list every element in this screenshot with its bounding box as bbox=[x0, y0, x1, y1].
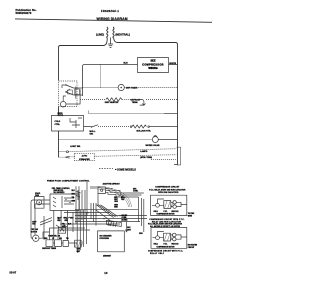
svg-text:CIRCUIT: CIRCUIT bbox=[188, 247, 194, 249]
svg-text:(BTM. TRIM): (BTM. TRIM) bbox=[140, 157, 152, 159]
defrost thermostat small box bbox=[58, 227, 65, 233]
svg-text:RELAY ONLY: RELAY ONLY bbox=[150, 252, 165, 255]
publication number label bbox=[16, 8, 37, 15]
svg-text:YEL: YEL bbox=[62, 223, 65, 225]
compressor circuit box 2 bbox=[151, 228, 187, 249]
wire icemaker rung right bbox=[94, 155, 176, 157]
wire aux connections bbox=[31, 215, 50, 239]
wire compressor rung left bbox=[83, 65, 138, 97]
node junction dots bbox=[75, 212, 120, 222]
icemaker dashed box bbox=[75, 153, 95, 161]
label connector bbox=[122, 215, 129, 221]
svg-text:(LINE): (LINE) bbox=[96, 32, 104, 36]
label DEFROST TERM. bbox=[131, 100, 141, 104]
label aux motor bbox=[31, 228, 39, 234]
svg-text:WHT: WHT bbox=[114, 199, 118, 201]
compressor wiring reference box bbox=[138, 58, 169, 73]
ptc relay 1 bbox=[164, 201, 174, 209]
lamp group bracket bbox=[177, 147, 181, 165]
svg-text:WATER VALVE: WATER VALVE bbox=[146, 144, 161, 147]
svg-text:WHT: WHT bbox=[64, 218, 67, 220]
label box1 right note bbox=[188, 213, 195, 217]
power cord coil neutral side bbox=[113, 27, 114, 38]
svg-text:P.T.C.: P.T.C. bbox=[164, 211, 168, 213]
wire defrost timer tap bbox=[100, 65, 102, 88]
svg-text:25060657: 25060657 bbox=[103, 256, 111, 258]
wire mullion rung middle bbox=[98, 126, 130, 128]
svg-text:DEF.: DEF. bbox=[133, 188, 137, 190]
wire center columns bbox=[77, 210, 86, 250]
svg-text:= SOME MODELS: = SOME MODELS bbox=[115, 168, 136, 171]
wire switch outputs bbox=[62, 85, 83, 104]
label right columns bbox=[127, 227, 143, 235]
wire icemaker feed bbox=[70, 156, 75, 158]
freezer light switch 2 bbox=[65, 91, 73, 95]
label box2 internal bbox=[154, 242, 180, 248]
overload protector 1 bbox=[156, 203, 160, 207]
run capacitor 2 bbox=[173, 233, 176, 241]
svg-text:FRESH FOOD COMPARTMENT CONTROL: FRESH FOOD COMPARTMENT CONTROL bbox=[47, 179, 90, 182]
node mullion right terminal bbox=[148, 126, 150, 128]
label center columns bbox=[77, 249, 81, 253]
power cord coil line side bbox=[107, 27, 108, 38]
wire defrost heater rung left bbox=[80, 99, 106, 101]
svg-text:YEL: YEL bbox=[121, 199, 124, 201]
label MULL. SW. bbox=[90, 131, 97, 136]
wire mullion rung right bbox=[149, 126, 177, 128]
damper relay box bbox=[98, 187, 106, 194]
svg-text:MULLION HTR.: MULLION HTR. bbox=[137, 131, 152, 133]
svg-text:FRS26ZGF-1: FRS26ZGF-1 bbox=[101, 9, 119, 13]
label thermostat box bbox=[52, 188, 70, 194]
mullion switch bbox=[91, 125, 98, 128]
wire neutral-side top rail bbox=[114, 38, 178, 165]
svg-text:COLD: COLD bbox=[55, 121, 61, 123]
wire lamps rung bbox=[68, 149, 176, 152]
label harness right bbox=[133, 188, 139, 192]
svg-text:ADAPTIVE DEFROST: ADAPTIVE DEFROST bbox=[103, 182, 121, 185]
svg-text:LAMPS: LAMPS bbox=[140, 150, 148, 153]
svg-text:TO PINK: TO PINK bbox=[188, 213, 195, 215]
node mullion left terminal bbox=[130, 126, 132, 128]
evaporator fan motor bbox=[35, 197, 45, 209]
freezer compartment dashed box bbox=[59, 81, 78, 107]
svg-text:BRN: BRN bbox=[65, 220, 68, 222]
wire harness cross bus bbox=[60, 210, 147, 224]
wire arrow drop bbox=[125, 222, 127, 232]
relay box 3 bbox=[63, 241, 69, 247]
svg-text:(NEUTRAL): (NEUTRAL) bbox=[115, 32, 130, 36]
freezer lamp bbox=[60, 101, 66, 107]
label box2 right note bbox=[188, 243, 198, 249]
svg-text:OVLD.: OVLD. bbox=[154, 243, 159, 245]
overload protector 2 bbox=[156, 236, 160, 240]
svg-text:MOTOR: MOTOR bbox=[31, 231, 38, 233]
label top stack bbox=[32, 220, 36, 225]
svg-text:(SOME): (SOME) bbox=[122, 219, 128, 221]
svg-text:AUTO: AUTO bbox=[82, 155, 88, 158]
icemaker feed switch bbox=[65, 156, 69, 158]
thermostat control box bbox=[50, 194, 79, 210]
defrost timer motor bbox=[118, 84, 124, 90]
compressor circuit box 1 subtitle bbox=[149, 189, 186, 194]
wire box2 internal bbox=[153, 232, 187, 240]
svg-text:WITH RUN CAPACITOR: WITH RUN CAPACITOR bbox=[158, 191, 179, 194]
wire water valve rung right bbox=[158, 139, 177, 141]
wire compressor rung right bbox=[169, 64, 178, 66]
wire mid verticals bbox=[44, 203, 96, 240]
ptc relay 2 bbox=[164, 233, 174, 241]
legend SOME MODELS bbox=[99, 168, 136, 171]
label left column wires bbox=[72, 190, 76, 203]
mullion heater resistor bbox=[132, 125, 146, 128]
wire defrost heater rung right bbox=[122, 99, 139, 101]
ground bbox=[108, 38, 113, 48]
fresh food switch glyph bbox=[76, 190, 81, 200]
svg-text:ICEMAKER: ICEMAKER bbox=[79, 158, 90, 161]
node lamp terminal bbox=[66, 151, 68, 153]
wire relay links bbox=[50, 228, 91, 243]
svg-text:SEE: SEE bbox=[150, 60, 155, 63]
svg-text:05-97: 05-97 bbox=[10, 270, 17, 274]
wire left columns bbox=[76, 182, 87, 224]
label relay row bbox=[44, 238, 69, 240]
wire harness band bbox=[90, 186, 132, 207]
svg-text:LIGHT SW.: LIGHT SW. bbox=[70, 146, 81, 148]
svg-text:COMPRESSOR MOTOR: COMPRESSOR MOTOR bbox=[157, 246, 176, 248]
harness band hatch bbox=[119, 193, 126, 200]
svg-text:5995209270: 5995209270 bbox=[16, 11, 32, 15]
svg-text:P.T.C.: P.T.C. bbox=[164, 243, 168, 245]
header rule bbox=[15, 19, 212, 22]
svg-text:MOLEX: MOLEX bbox=[122, 215, 129, 217]
svg-text:OVLD.: OVLD. bbox=[154, 211, 159, 213]
svg-text:DEFROST TIMER: DEFROST TIMER bbox=[42, 248, 57, 250]
svg-text:CTRL: CTRL bbox=[55, 124, 61, 126]
compressor circuit box 1 bbox=[151, 195, 187, 215]
wire note rung bbox=[89, 111, 165, 114]
svg-text:YEL: YEL bbox=[72, 197, 75, 199]
svg-text:SW.: SW. bbox=[90, 133, 94, 135]
compressor circuit box 2 subtitle bbox=[148, 223, 183, 228]
svg-text:COMPRESSOR: COMPRESSOR bbox=[142, 63, 164, 66]
wire mullion rung left bbox=[84, 126, 91, 128]
auxiliary motor bbox=[33, 235, 39, 241]
wire icemaker rung left bbox=[59, 156, 66, 158]
hatched component bbox=[75, 240, 84, 253]
wire water valve rung left bbox=[59, 139, 153, 141]
freezer light switch 1 bbox=[65, 84, 73, 88]
label box1 internal bbox=[154, 210, 180, 216]
cold control box bbox=[52, 115, 84, 131]
wire diagonal bundle bbox=[96, 205, 118, 222]
water valve solenoid bbox=[152, 136, 158, 143]
wire defrost timer rung left bbox=[83, 87, 119, 89]
right bus bottom tick bbox=[174, 164, 178, 166]
defrost heater resistor bbox=[106, 98, 122, 102]
wire right columns bbox=[139, 197, 144, 232]
label freezer control bbox=[58, 113, 64, 117]
label harness cluster bbox=[114, 197, 125, 209]
freezer switch contact blocks bbox=[68, 89, 80, 95]
wire line-side top rail bbox=[59, 38, 108, 81]
svg-text:CONN.: CONN. bbox=[122, 217, 128, 219]
relay box 1 bbox=[46, 240, 53, 247]
svg-text:TERM.: TERM. bbox=[132, 102, 139, 104]
label mid cluster a bbox=[57, 218, 74, 223]
defrost limit switch glyphs bbox=[56, 217, 70, 227]
svg-text:COMPRESSOR MOTOR: COMPRESSOR MOTOR bbox=[157, 214, 176, 216]
wire lamps rung left bbox=[59, 151, 67, 153]
svg-text:DEF. TIMER: DEF. TIMER bbox=[126, 87, 138, 89]
svg-text:BLK: BLK bbox=[124, 63, 129, 65]
run capacitor 1 bbox=[173, 201, 176, 209]
connector block hatch bbox=[106, 220, 121, 226]
caption box2 bbox=[148, 251, 184, 255]
wire left bus mid bbox=[58, 107, 60, 158]
wire diagonal cross bbox=[40, 218, 52, 225]
svg-text:BLU: BLU bbox=[68, 223, 71, 225]
wire box1 internal bbox=[152, 199, 187, 207]
svg-text:WIRING: WIRING bbox=[148, 67, 157, 70]
svg-text:13: 13 bbox=[104, 271, 108, 275]
caption box1 bbox=[149, 219, 185, 223]
svg-text:DEF. HEATER: DEF. HEATER bbox=[105, 101, 119, 104]
wire lamp rung 3 bbox=[151, 158, 177, 160]
wire left loop bbox=[31, 200, 50, 215]
wire note rung right bbox=[164, 113, 178, 115]
label mid cluster b bbox=[62, 223, 71, 228]
svg-text:COMPRESSOR CIRCUIT: COMPRESSOR CIRCUIT bbox=[155, 186, 180, 188]
svg-text:CONN.: CONN. bbox=[133, 191, 139, 193]
label EVAP FAN bbox=[35, 192, 41, 197]
svg-text:TIMER MTR. SW.: TIMER MTR. SW. bbox=[48, 236, 60, 238]
svg-text:WHT: WHT bbox=[77, 251, 81, 253]
defrost terminator thermostat bbox=[139, 100, 146, 106]
wire defrost timer rung right bbox=[124, 87, 177, 89]
svg-text:PROVISION: PROVISION bbox=[100, 238, 110, 240]
svg-text:WIRE: WIRE bbox=[188, 216, 192, 218]
wire stepped harness bbox=[98, 188, 144, 206]
relay box 2 bbox=[55, 240, 62, 247]
icemaker provision box bbox=[98, 231, 125, 252]
